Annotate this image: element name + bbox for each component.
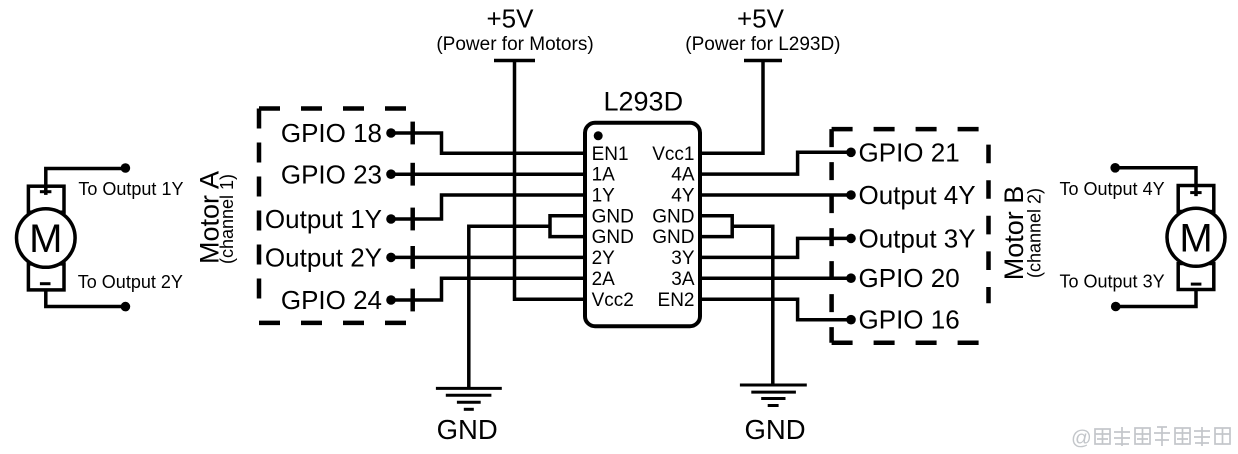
svg-text:(channel 1): (channel 1) — [217, 174, 237, 264]
wire Output 1Y to 1Y — [391, 195, 583, 219]
junction dot Output 4Y — [846, 190, 856, 200]
wire EN2 to GPIO 16 — [701, 299, 851, 320]
tick Output 2Y — [410, 246, 415, 269]
junction dot Output 3Y — [846, 234, 856, 244]
svg-text:Output 3Y: Output 3Y — [859, 223, 976, 253]
junction dot Output 2Y — [386, 253, 396, 263]
motor M1 body circle — [17, 209, 76, 268]
ground symbol right — [740, 385, 807, 406]
svg-text:EN2: EN2 — [658, 290, 695, 311]
svg-text:Output 4Y: Output 4Y — [859, 180, 976, 210]
motor M2 body circle — [1167, 208, 1225, 266]
svg-text:Vcc1: Vcc1 — [652, 144, 694, 165]
tick GPIO 18 — [410, 122, 415, 145]
wire 4A to GPIO 21 — [701, 152, 851, 174]
svg-text:Output 1Y: Output 1Y — [265, 204, 382, 234]
svg-text:GND: GND — [652, 227, 694, 248]
watermark — [1071, 427, 1230, 450]
junction dot M1 bottom — [121, 302, 131, 312]
svg-text:GPIO 16: GPIO 16 — [859, 305, 960, 335]
svg-text:+5V: +5V — [737, 4, 785, 34]
svg-text:Vcc2: Vcc2 — [592, 290, 634, 311]
junction dot M2 bottom — [1111, 302, 1121, 312]
svg-text:EN1: EN1 — [592, 144, 629, 165]
svg-text:GPIO 23: GPIO 23 — [281, 159, 382, 189]
junction dot GPIO 16 — [846, 315, 856, 325]
svg-text:4A: 4A — [671, 165, 695, 186]
plus sign M1 — [40, 190, 52, 193]
svg-text:To Output 2Y: To Output 2Y — [78, 272, 183, 292]
svg-text:+5V: +5V — [487, 4, 535, 34]
tick GPIO 23 — [410, 163, 415, 186]
wire GPIO 24 to 2A — [391, 278, 583, 300]
svg-text:M: M — [29, 217, 62, 261]
svg-text:3Y: 3Y — [671, 248, 695, 269]
motor M2 terminal rect top — [1178, 186, 1214, 212]
svg-text:1A: 1A — [592, 165, 616, 186]
minus sign M2 — [1191, 283, 1202, 286]
junction dot M2 top — [1110, 163, 1120, 173]
node +5V L293D label — [685, 4, 840, 56]
svg-text:M: M — [1179, 216, 1212, 260]
junction dot GPIO 21 — [846, 148, 856, 158]
junction dot GPIO 23 — [386, 169, 396, 179]
tick GPIO 24 — [410, 289, 415, 312]
motor M1 terminal rect top — [28, 186, 64, 212]
wire motor M2 minus lead — [1116, 290, 1196, 307]
plus sign M2 — [1190, 191, 1201, 194]
svg-text:@: @ — [1071, 427, 1092, 450]
svg-text:(channel 2): (channel 2) — [1025, 188, 1045, 278]
svg-text:GPIO 20: GPIO 20 — [859, 263, 960, 293]
svg-text:Output 2Y: Output 2Y — [265, 242, 382, 272]
svg-text:3A: 3A — [671, 269, 695, 290]
minus sign M1 — [40, 282, 51, 285]
svg-text:2Y: 2Y — [592, 248, 616, 269]
dashed box Motor A channel 1 — [259, 109, 407, 323]
svg-text:To Output 4Y: To Output 4Y — [1060, 179, 1165, 199]
svg-text:To Output 3Y: To Output 3Y — [1060, 271, 1165, 291]
svg-text:GND: GND — [744, 414, 805, 445]
wire 3Y to Output 3Y — [701, 238, 851, 257]
junction dot M1 top — [121, 163, 131, 173]
tick Output 1Y — [410, 208, 415, 231]
svg-text:2A: 2A — [592, 269, 616, 290]
wire GND bracket right — [701, 216, 732, 237]
junction dot Output 1Y — [386, 214, 396, 224]
svg-text:4Y: 4Y — [671, 186, 695, 207]
dashed box Motor B channel 2 — [832, 129, 989, 343]
junction dot GPIO 24 — [386, 295, 396, 305]
junction dot GPIO 20 — [846, 273, 856, 283]
wire +5V motors to Vcc2 — [515, 61, 584, 300]
wire GND bracket left — [550, 216, 583, 237]
wire motor M1 minus lead — [46, 290, 126, 307]
junction dot GPIO 18 — [386, 128, 396, 138]
motor M1 left — [17, 163, 131, 311]
ground symbol left — [436, 388, 502, 409]
wire 3A to GPIO 20 — [701, 276, 851, 280]
svg-text:(Power for Motors): (Power for Motors) — [436, 34, 593, 55]
wire GPIO 23 to 1A — [391, 172, 583, 176]
svg-text:GND: GND — [592, 227, 634, 248]
svg-text:GND: GND — [652, 206, 694, 227]
power terminal bar +5V L293D — [744, 59, 782, 63]
op-amp U1 L293D IC body — [585, 87, 700, 327]
wire Output 2Y to 2Y — [391, 256, 583, 260]
svg-text:L293D: L293D — [604, 87, 684, 117]
svg-text:GND: GND — [592, 206, 634, 227]
svg-text:GPIO 24: GPIO 24 — [281, 285, 382, 315]
svg-text:(Power for L293D): (Power for L293D) — [685, 34, 840, 55]
motor M2 right — [1110, 163, 1225, 311]
svg-text:GPIO 21: GPIO 21 — [859, 137, 960, 167]
wire right GND pins to ground — [732, 226, 773, 385]
svg-text:GND: GND — [437, 414, 498, 445]
wire 4Y to Output 4Y — [701, 193, 851, 197]
node +5V motors label — [436, 4, 593, 56]
svg-text:GPIO 18: GPIO 18 — [281, 118, 382, 148]
wire motor M2 plus lead — [1115, 168, 1196, 196]
wire +5V L293D to Vcc1 — [701, 61, 763, 154]
wire motor M1 plus lead — [46, 169, 126, 195]
svg-text:1Y: 1Y — [592, 186, 616, 207]
power terminal bar +5V motors — [494, 59, 535, 63]
wire left GND pins to ground — [469, 226, 550, 388]
motor M1 terminal rect bottom — [28, 264, 64, 290]
motor M2 terminal rect bottom — [1178, 264, 1214, 290]
svg-text:To Output 1Y: To Output 1Y — [78, 179, 183, 199]
wire GPIO 18 to EN1 — [391, 133, 583, 153]
